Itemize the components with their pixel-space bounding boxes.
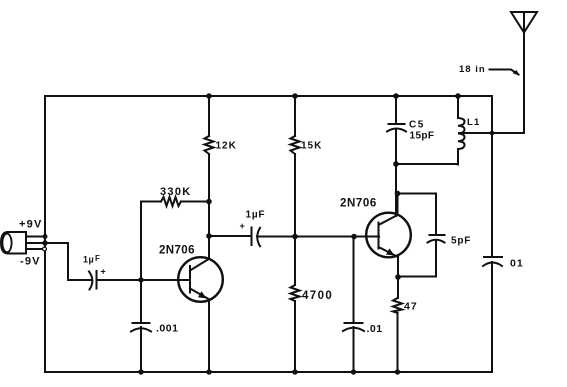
svg-text:2N706: 2N706: [340, 198, 377, 210]
svg-text:.001: .001: [156, 323, 178, 335]
svg-text:5pF: 5pF: [451, 236, 471, 247]
node C5 bottom junction: [393, 161, 399, 167]
svg-text:12K: 12K: [216, 141, 237, 152]
node bottom rail .01: [351, 369, 356, 374]
wire Q1 emitter down: [208, 300, 210, 373]
node bottom rail 47: [395, 369, 400, 374]
svg-text:+: +: [240, 221, 245, 231]
svg-text:1µF: 1µF: [246, 210, 266, 221]
wire mic middle lead: [26, 243, 92, 280]
capacitor 1uF input: [89, 271, 190, 290]
node Q2 emitter junction: [395, 274, 401, 280]
capacitor .01 output (right rail): [483, 257, 502, 372]
wire collector to coupling cap: [209, 235, 252, 237]
svg-text:C5: C5: [409, 120, 425, 131]
node top rail 15K: [292, 93, 298, 99]
node bottom rail 4700: [292, 369, 297, 374]
wire left rail: [44, 96, 46, 372]
node Q2 collector junction: [395, 191, 401, 197]
capacitor C5 15pF: [387, 96, 406, 164]
svg-text:1µ: 1µ: [83, 255, 94, 265]
node 15K junction: [292, 234, 298, 240]
svg-text:+9V: +9V: [19, 219, 42, 231]
svg-text:2N706: 2N706: [159, 245, 195, 257]
svg-text:-9V: -9V: [20, 256, 41, 268]
svg-text:F: F: [95, 254, 100, 263]
node Q2 base junction: [351, 234, 357, 240]
wire C5 bottom to L1: [396, 163, 458, 165]
wire mic bottom lead: [26, 248, 42, 250]
svg-text:01: 01: [510, 258, 524, 270]
wire antenna tap: [459, 132, 524, 134]
transistor Q2 2N706: [366, 213, 411, 258]
resistor 330K: [141, 197, 209, 280]
node mic middle: [42, 240, 47, 245]
inductor L1: [458, 96, 465, 165]
microphone: [1, 232, 26, 254]
capacitor .001: [131, 280, 151, 372]
svg-text:L1: L1: [467, 117, 481, 128]
node mic top: [43, 234, 48, 239]
wire mic top lead: [26, 236, 45, 238]
wire right rail upper: [491, 96, 493, 256]
wire bottom rail: [45, 371, 492, 373]
capacitor 1uF coupling: [252, 228, 380, 247]
resistor 12K: [205, 96, 214, 258]
capacitor .01 base Q2: [343, 237, 364, 373]
node top rail C5: [393, 93, 399, 99]
wire 18in arrow: [490, 70, 520, 76]
svg-text:.01: .01: [367, 323, 383, 335]
transistor Q1 2N706: [178, 257, 223, 302]
svg-text:4700: 4700: [302, 290, 333, 302]
resistor 4700: [291, 285, 300, 372]
antenna: [511, 12, 537, 133]
node top rail 12K: [206, 93, 212, 99]
wire Q2 emitter down: [397, 257, 399, 298]
node base junction Q1: [138, 277, 143, 282]
svg-text:18 in: 18 in: [459, 64, 486, 75]
node top rail L1: [455, 93, 461, 99]
node Q1 collector junction: [206, 233, 212, 239]
svg-text:330K: 330K: [160, 186, 192, 198]
node tap crossing: [490, 131, 495, 136]
node bottom rail .001: [138, 369, 143, 374]
resistor 47: [393, 298, 402, 372]
svg-text:+: +: [101, 267, 106, 277]
node mic bottom open: [43, 247, 47, 251]
wire top rail: [45, 95, 492, 97]
svg-text:15K: 15K: [301, 141, 322, 152]
svg-text:47: 47: [404, 301, 418, 313]
resistor 15K: [291, 96, 300, 285]
wire Q2 collector up: [397, 194, 399, 216]
wire collector to C5 line: [395, 164, 397, 216]
capacitor 5pF: [398, 194, 445, 277]
svg-text:15pF: 15pF: [410, 131, 435, 142]
node bottom rail Q1 emitter: [206, 369, 211, 374]
node 330K right: [206, 199, 212, 205]
